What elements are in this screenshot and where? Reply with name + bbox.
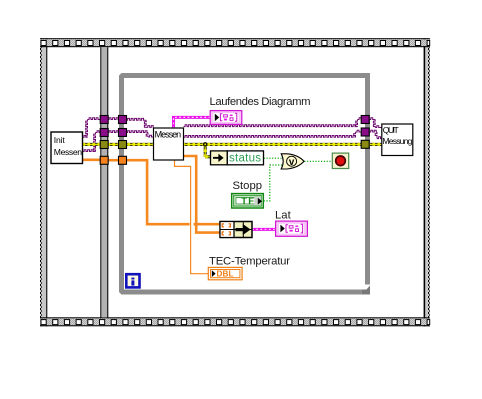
terminal: loop stop condition (red stop button)	[332, 153, 348, 168]
flat sequence border: left marching-ants edge	[40, 38, 47, 326]
tunnel: sequence divider error	[100, 141, 108, 149]
tunnel: loop right class B	[361, 128, 369, 136]
svg-text:TF: TF	[241, 195, 255, 206]
wire: class A between divider and loop tunnel	[108, 118, 120, 120]
node: status display cell	[227, 151, 263, 165]
svg-text:Stopp: Stopp	[233, 180, 263, 192]
wire: cluster from Messen top to waveform chart	[174, 117, 211, 128]
flat sequence border: bottom filmstrip band	[40, 317, 430, 326]
wire: class B from Init Messen to divider tunnel	[83, 131, 102, 152]
flat sequence border: top filmstrip band	[40, 38, 430, 47]
tunnel: sequence divider numeric array	[100, 156, 108, 164]
wire: class B right tunnel to QUIT Messung	[369, 130, 382, 138]
wire: class B from Messen to right tunnel	[184, 130, 362, 137]
tunnel: sequence divider class A	[100, 116, 108, 124]
tunnel: loop right error	[361, 140, 369, 148]
svg-text:Messen: Messen	[54, 147, 82, 157]
wire: class A right tunnel to QUIT Messung	[369, 118, 382, 128]
subVI Messen	[154, 128, 184, 160]
svg-text:v: v	[289, 157, 295, 168]
wire: error cluster from Init Messen through loop to QUIT Messung	[83, 143, 382, 146]
indicator: waveform chart terminal (Laufendes Diagramm)	[210, 111, 242, 125]
node: Unbundle status (icon cell)	[211, 151, 228, 165]
wire: class A from Init Messen to divider tunnel	[83, 118, 102, 138]
wire: class B between divider and loop tunnel	[108, 131, 120, 133]
subVI Init Messen	[51, 132, 83, 164]
tunnel: loop right class A	[361, 116, 369, 124]
svg-text:Messung: Messung	[382, 136, 412, 146]
flat sequence frame divider	[100, 47, 108, 317]
wire: class A loop tunnel to Messen input	[126, 118, 154, 127]
function: Or gate	[281, 154, 304, 169]
while loop border	[119, 73, 370, 295]
svg-text:QUIT: QUIT	[383, 125, 400, 135]
junction: error wire branch dot	[203, 142, 208, 147]
wire: class A from Messen to right tunnel	[184, 118, 362, 127]
svg-text:Laufendes Diagramm: Laufendes Diagramm	[210, 96, 311, 108]
tunnel: loop left numeric array	[119, 156, 127, 164]
control: Stopp boolean TF terminal	[232, 194, 264, 208]
wire: numeric array from Init Messen through tunnels	[83, 159, 120, 162]
tunnel: loop left class B	[119, 129, 127, 137]
wire: numeric array loop tunnel down to Bundle input 1 (with crossing gap)	[126, 160, 221, 224]
tunnel: sequence divider class B	[100, 129, 108, 137]
wire: error branch down to status unbundle	[205, 144, 210, 156]
wire: class B loop tunnel to Messen input	[126, 131, 154, 137]
svg-text:DBL: DBL	[217, 270, 234, 279]
svg-text:Lat: Lat	[275, 209, 292, 221]
svg-text:Init: Init	[54, 135, 66, 145]
svg-text:status: status	[229, 153, 261, 165]
wire: cluster from Bundle to Lat indicator	[252, 228, 275, 231]
wire: boolean from status to Or gate	[264, 157, 284, 159]
svg-text:Messen: Messen	[155, 129, 182, 139]
indicator: Lat cluster terminal	[276, 221, 308, 236]
subVI QUIT Messung	[382, 124, 413, 156]
tunnel: loop left class A	[119, 116, 127, 124]
wire: numeric array from Messen right to Bundle input 2	[184, 156, 221, 233]
wire: boolean from Stopp to Or gate	[264, 165, 284, 201]
tunnel: loop left error	[119, 141, 127, 149]
svg-text:TEC-Temperatur: TEC-Temperatur	[209, 256, 290, 268]
flat sequence border: right marching-ants edge	[424, 38, 430, 326]
wire: scalar numeric from Messen bottom to TEC-Temperatur	[175, 160, 209, 274]
wire: boolean from Or gate to loop condition terminal	[304, 160, 332, 162]
indicator: TEC-Temperatur DBL terminal	[208, 267, 242, 279]
terminal: loop iteration counter i	[126, 274, 139, 287]
node: Bundle (2 inputs)	[220, 222, 252, 238]
